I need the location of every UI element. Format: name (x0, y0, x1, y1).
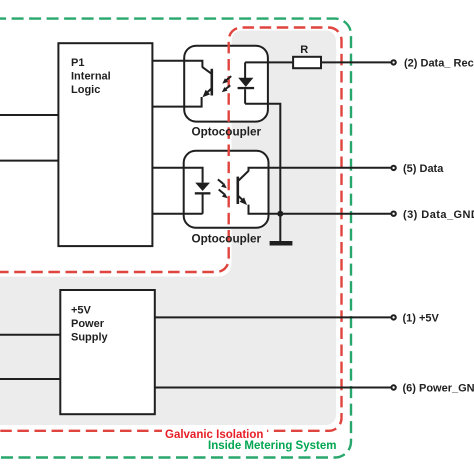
wire U2 emitter to terminal (3) (249, 205, 391, 214)
svg-text:Internal: Internal (71, 71, 111, 83)
optocoupler U2 body (184, 151, 269, 228)
light arrows U1 (LED to transistor) (222, 76, 231, 92)
svg-text:+5V: +5V (71, 304, 92, 316)
svg-text:Logic: Logic (71, 84, 100, 96)
box P1 Internal Logic (58, 43, 152, 246)
svg-text:Optocoupler: Optocoupler (192, 233, 262, 246)
svg-text:(3) Data_GND: (3) Data_GND (403, 209, 474, 221)
label Galvanic Isolation (white mask over red dashes) (162, 427, 267, 435)
svg-text:(1) +5V: (1) +5V (403, 313, 440, 325)
wire junction to ground (279, 214, 281, 242)
svg-text:Supply: Supply (71, 331, 109, 343)
optocoupler U1 body (184, 46, 268, 122)
LED D2 inside U2 (195, 183, 211, 214)
wire P1 input B (left edge) (0, 160, 58, 162)
wire power supply input B (left edge) (0, 378, 60, 380)
svg-text:Optocoupler: Optocoupler (192, 125, 262, 138)
resistor R (293, 57, 321, 68)
wire P1 to U2 LED anode (152, 168, 202, 183)
transistor U2 phototransistor (238, 171, 249, 205)
svg-text:Power: Power (71, 318, 105, 330)
wire power supply to terminal (1) (155, 316, 391, 318)
svg-text:P1: P1 (71, 57, 84, 69)
wire U1 phototransistor emitter to P1 (152, 97, 201, 107)
ground (270, 241, 293, 246)
wire resistor R to terminal (2) (321, 61, 391, 63)
node junction on Data_GND (277, 211, 283, 217)
wire U1 LED anode to resistor R (245, 61, 293, 63)
terminal (2) Data_Received (391, 60, 395, 64)
svg-text:(6) Power_GND: (6) Power_GND (403, 383, 474, 395)
wire P1 to U1 phototransistor collector (152, 61, 202, 67)
terminal (6) Power_GND (391, 385, 395, 389)
transistor U1 phototransistor (202, 67, 212, 98)
wire U2 LED cathode to P1 (152, 213, 202, 215)
terminal (3) Data_GND (391, 212, 395, 216)
terminal (5) Data (391, 166, 395, 170)
terminal (1) +5V (391, 315, 395, 319)
wire power supply input A (left edge) (0, 334, 60, 336)
light arrows U2 (LED to transistor) (218, 179, 228, 198)
galvanic isolation gray zone fill (0, 31, 336, 426)
LED D1 inside U1 (238, 62, 255, 103)
wire U1 LED cathode down to Data_GND node (245, 104, 280, 214)
wire P1 input A (left edge) (0, 114, 58, 116)
galvanic isolation red dashed boundary (0, 28, 342, 431)
svg-text:R: R (300, 44, 308, 56)
wire U2 collector to terminal (5) (249, 168, 391, 172)
svg-text:Inside Metering System: Inside Metering System (208, 440, 336, 452)
svg-text:(2) Data_ Receive: (2) Data_ Receive (404, 58, 474, 70)
wire power supply to terminal (6) (155, 387, 391, 389)
svg-text:(5) Data: (5) Data (403, 163, 444, 175)
inside metering system green dashed boundary (0, 19, 351, 458)
box +5V Power Supply (60, 290, 155, 414)
